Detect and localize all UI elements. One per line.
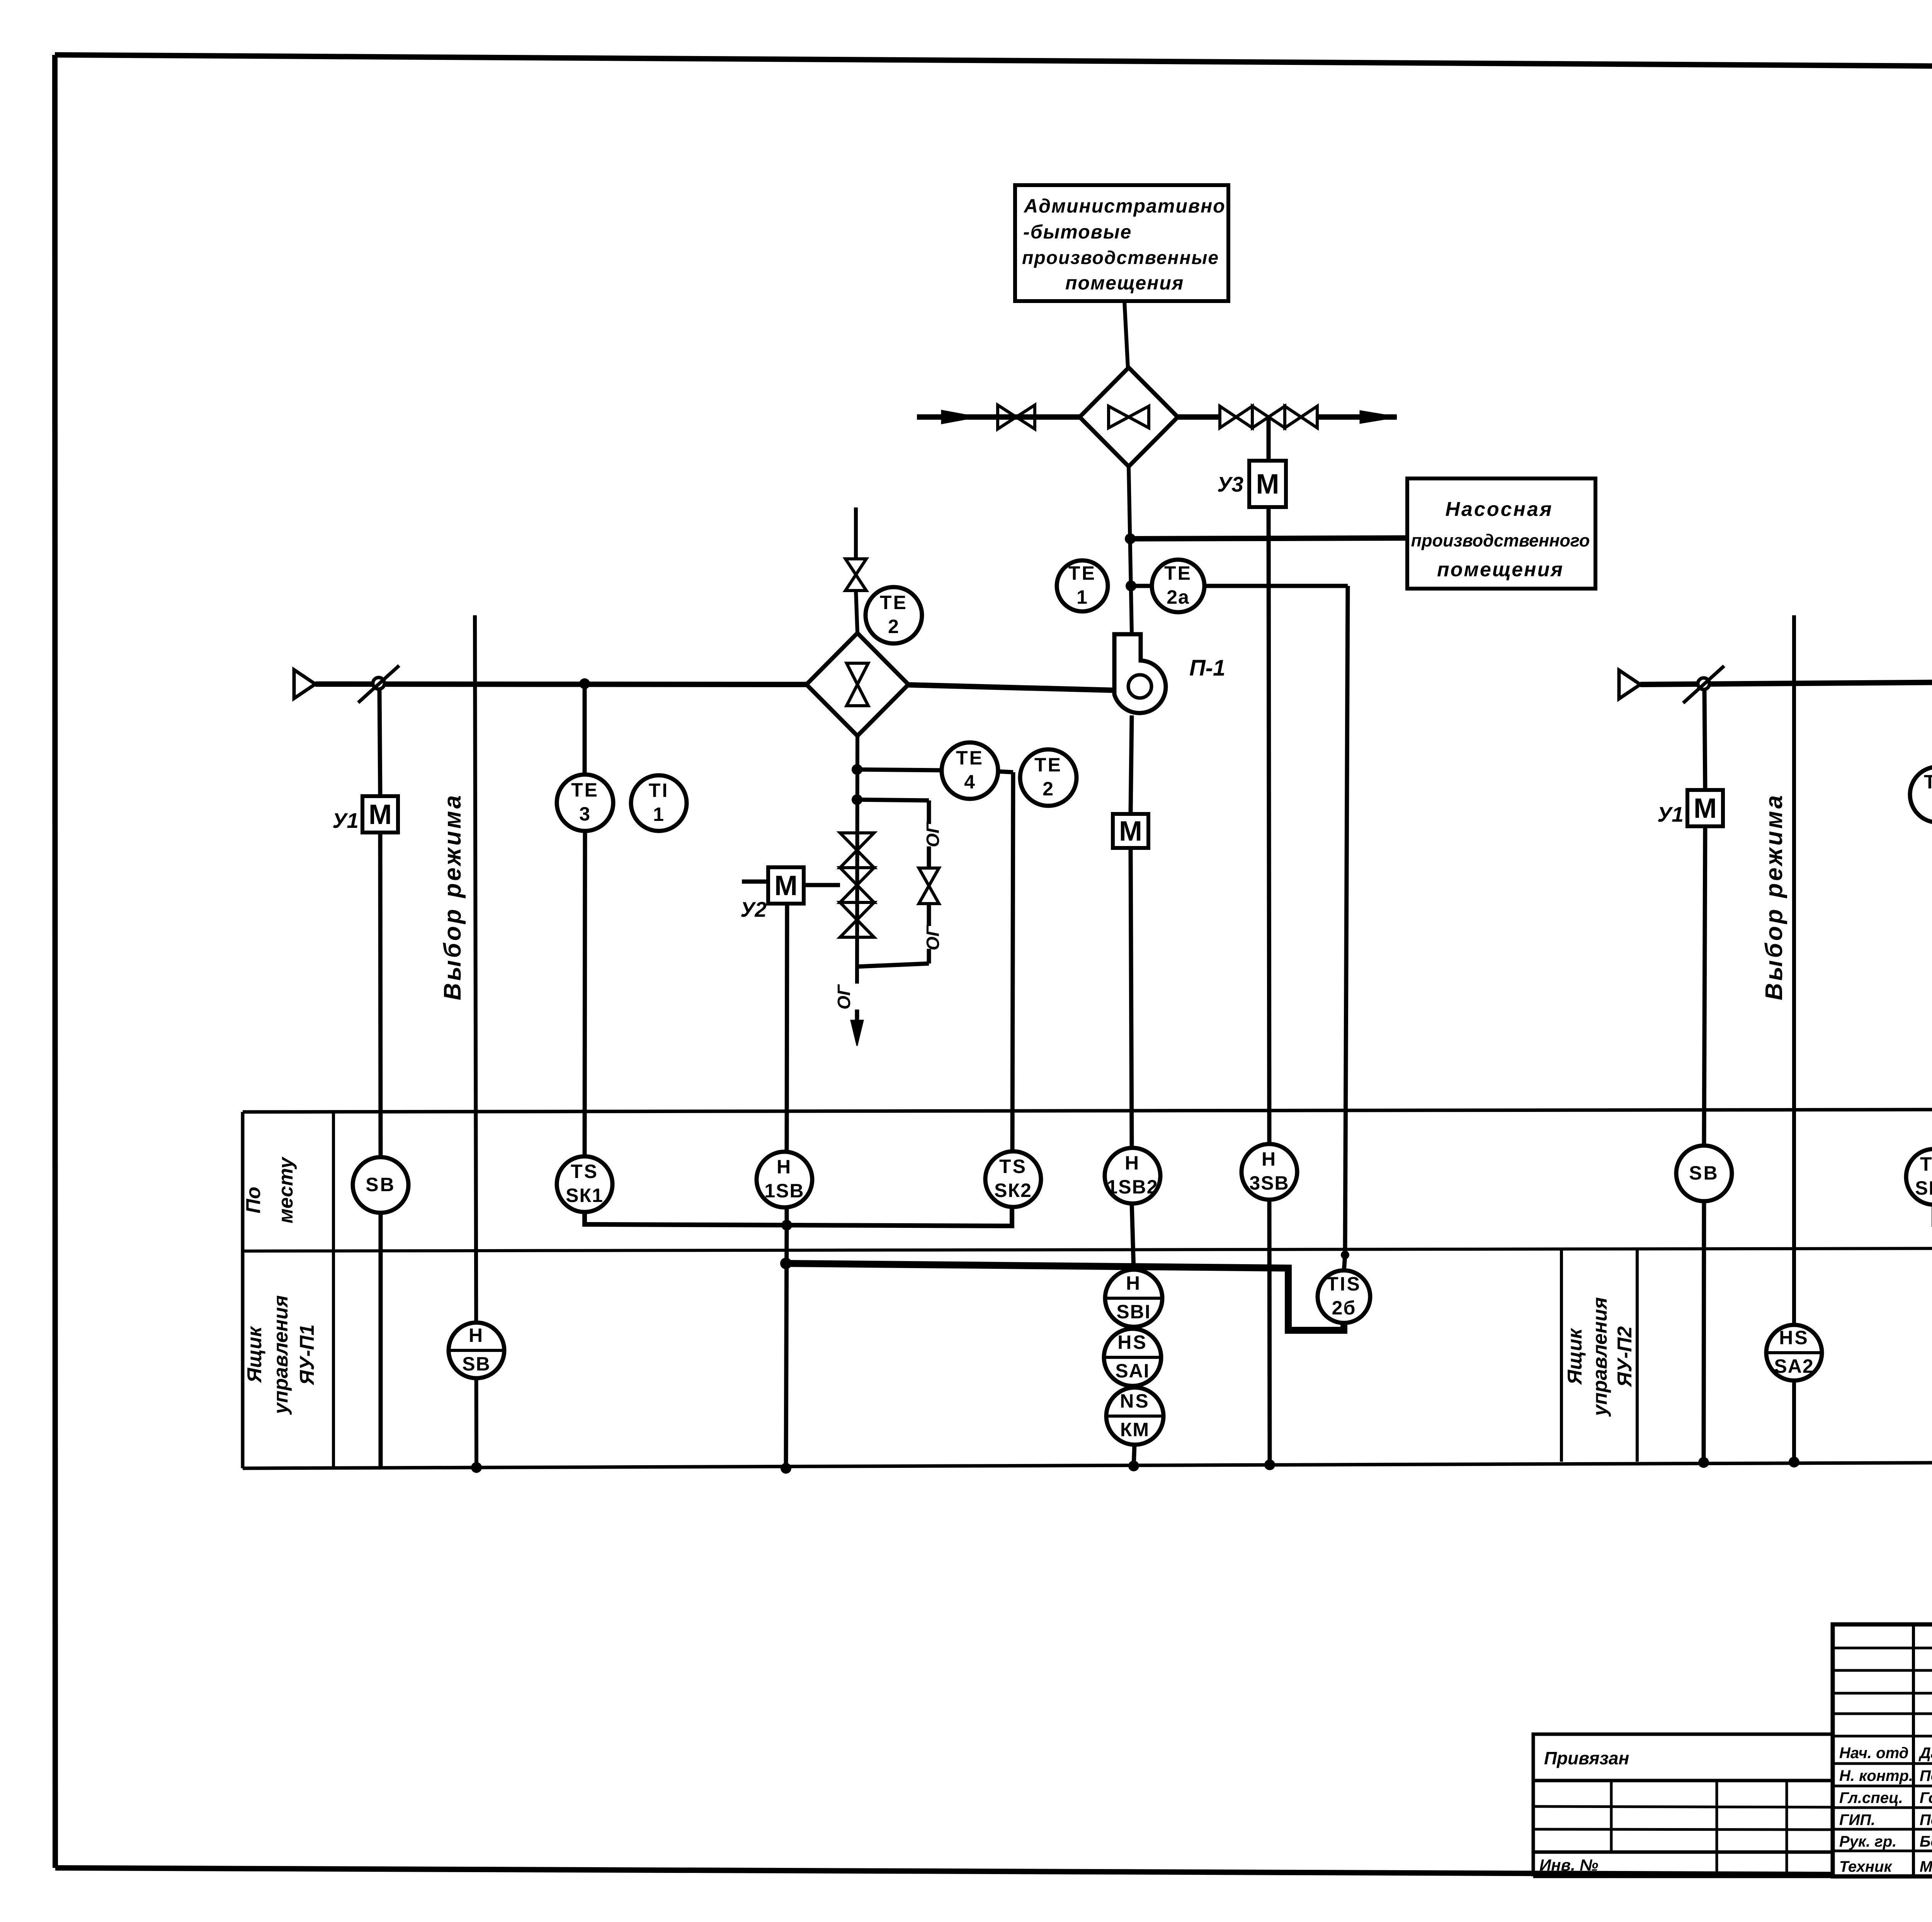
node bus junction H 1SB П-1 xyxy=(781,1220,792,1231)
svg-text:У1: У1 xyxy=(1657,802,1684,826)
wire TE3 П-1 down to TS SK1 xyxy=(585,831,585,1156)
svg-text:1: 1 xyxy=(1077,586,1088,608)
instrument NS/KM П-1 xyxy=(1106,1387,1163,1445)
wire top diamond outlet down to fan П-1 xyxy=(1129,466,1132,633)
wire ЯУ-П2 column right xyxy=(1636,1249,1639,1462)
wire actuator У1 П-2 down to SB xyxy=(1704,826,1705,1146)
svg-text:управления: управления xyxy=(270,1295,292,1415)
wire П-1 duct left of diamond xyxy=(315,684,806,684)
title block Привязан section xyxy=(1533,1734,1833,1876)
svg-text:ТЕ: ТЕ xyxy=(1068,562,1096,584)
svg-text:M: M xyxy=(369,799,392,830)
svg-text:ГИП.: ГИП. xyxy=(1839,1811,1875,1828)
wire bypass right leg П-1 xyxy=(927,846,931,868)
svg-text:Постникова: Постникова xyxy=(1920,1811,1932,1828)
node band bottom SB П-2 xyxy=(1698,1457,1709,1468)
wire band left edge xyxy=(241,1112,245,1468)
instrument TS SK2 П-1 xyxy=(985,1151,1041,1207)
title block signature table xyxy=(1833,1624,1932,1876)
node thick line junction on H 1SB П-1 xyxy=(780,1258,792,1269)
svg-text:Ящик: Ящик xyxy=(1564,1328,1586,1385)
svg-text:ОГ: ОГ xyxy=(923,822,943,847)
svg-text:помещения: помещения xyxy=(1065,272,1184,294)
node box Насосная производственного помещения xyxy=(1407,478,1595,589)
wire thick H 1SB П-1 to TIS 2б xyxy=(786,1263,1344,1330)
node band bottom NS KM П-1 xyxy=(1128,1461,1139,1471)
svg-text:SА2: SА2 xyxy=(1774,1355,1814,1377)
actuator M У3 xyxy=(1249,461,1286,507)
svg-text:1: 1 xyxy=(653,804,665,825)
inlet air triangle П-2 xyxy=(1619,670,1640,699)
node TE2a wire at band divider xyxy=(1341,1251,1349,1259)
svg-text:Ящик: Ящик xyxy=(243,1326,266,1383)
instrument TE2 П-1 top xyxy=(866,587,922,644)
svg-text:2: 2 xyxy=(1043,778,1054,800)
svg-text:SК1: SК1 xyxy=(1915,1177,1932,1199)
valve above П-1 heater diamond xyxy=(845,559,866,591)
fan П-1 xyxy=(1114,634,1166,713)
flow arrow on top pipe left xyxy=(942,410,977,424)
svg-text:производственного: производственного xyxy=(1411,531,1590,550)
instrument TI1 П-1 xyxy=(631,775,687,831)
svg-text:-бытовые: -бытовые xyxy=(1023,221,1132,243)
valve control stack 1 П-1 xyxy=(840,833,874,868)
wire ЯУ-П2 column left xyxy=(1560,1250,1563,1462)
svg-text:2а: 2а xyxy=(1167,586,1190,608)
svg-text:1SВ: 1SВ xyxy=(764,1180,804,1202)
wire damper П-1 to actuator У1 xyxy=(379,689,380,796)
svg-text:1SВ2: 1SВ2 xyxy=(1107,1176,1158,1198)
svg-text:У3: У3 xyxy=(1217,472,1243,496)
svg-text:SАI: SАI xyxy=(1115,1360,1150,1382)
svg-text:M: M xyxy=(774,870,798,901)
svg-text:ТЕ: ТЕ xyxy=(1034,754,1062,776)
wire page frame left border xyxy=(55,55,55,1868)
svg-text:Привязан: Привязан xyxy=(1544,1748,1629,1768)
svg-text:Боева: Боева xyxy=(1920,1833,1932,1850)
svg-text:помещения: помещения xyxy=(1437,558,1564,581)
svg-text:NS: NS xyxy=(1120,1390,1150,1412)
svg-text:Н: Н xyxy=(1125,1152,1140,1174)
instrument H/SB П-1 xyxy=(449,1323,504,1378)
instrument HS/SAI П-1 xyxy=(1104,1329,1161,1386)
wire bypass bottom П-1 xyxy=(857,964,929,967)
svg-text:Меновщикова: Меновщикова xyxy=(1920,1858,1932,1875)
wire П-2 duct left of diamond xyxy=(1640,681,1932,684)
svg-text:ТЕ: ТЕ xyxy=(1924,771,1932,793)
svg-text:Техник: Техник xyxy=(1839,1858,1892,1875)
svg-text:ТS: ТS xyxy=(1920,1153,1932,1175)
svg-text:Инв. №: Инв. № xyxy=(1539,1856,1598,1874)
svg-text:ТIS: ТIS xyxy=(1327,1273,1361,1295)
drain arrow П-1 xyxy=(851,1020,863,1046)
svg-text:ОГ: ОГ xyxy=(923,925,943,950)
instrument SB П-1 xyxy=(353,1157,408,1213)
actuator M У1 П-1 xyxy=(362,796,398,832)
wire top pipe right segment 2 xyxy=(1317,414,1397,420)
valve inside top diamond xyxy=(1109,406,1149,428)
svg-text:Постникова: Постникова xyxy=(1920,1767,1932,1784)
svg-text:Данилов: Данилов xyxy=(1918,1745,1932,1762)
svg-text:ТЕ: ТЕ xyxy=(571,779,599,801)
wire TE2a signal down to TIS 2б xyxy=(1345,586,1348,1255)
instrument TS SK1 П-2 xyxy=(1906,1149,1932,1205)
svg-text:3: 3 xyxy=(579,803,591,825)
wire above valve П-1 heater xyxy=(854,507,858,559)
instrument H/SBI П-1 xyxy=(1105,1270,1162,1327)
wire junction to pump room box xyxy=(1130,538,1407,539)
valve control stack 2 П-1 xyxy=(840,868,874,902)
wire damper П-2 to actuator У1 xyxy=(1704,689,1705,790)
wire bypass right leg upper П-1 xyxy=(927,800,931,824)
svg-text:По: По xyxy=(242,1187,265,1213)
damper with actuator П-2 xyxy=(1683,666,1724,703)
instrument H 1SB2 П-1 xyxy=(1105,1148,1160,1204)
instrument TE1 xyxy=(1057,560,1108,611)
svg-text:SВ: SВ xyxy=(1689,1162,1719,1184)
svg-text:ТЕ: ТЕ xyxy=(1164,562,1192,584)
wire mode-select line П-1 xyxy=(475,615,476,1468)
valve 1 right of top diamond xyxy=(1220,406,1252,428)
svg-text:SВ: SВ xyxy=(366,1174,395,1195)
node band bottom H 3SB xyxy=(1264,1459,1275,1470)
svg-text:Выбор режима: Выбор режима xyxy=(1761,793,1787,1001)
instrument TS SK1 П-1 xyxy=(557,1156,612,1212)
svg-text:2б: 2б xyxy=(1332,1297,1356,1319)
svg-text:Насосная: Насосная xyxy=(1445,498,1553,521)
wire H 1SB2 П-1 to lamp stack xyxy=(1132,1204,1134,1270)
svg-text:ТS: ТS xyxy=(571,1161,599,1182)
svg-text:У2: У2 xyxy=(740,897,767,921)
wire top pipe left segment xyxy=(917,414,1080,420)
valve 2 right of top diamond xyxy=(1252,406,1285,428)
svg-text:ТI: ТI xyxy=(649,780,669,801)
instrument SB П-2 xyxy=(1676,1146,1732,1201)
wire H 1SB П-1 to bus xyxy=(785,1207,789,1225)
svg-text:Выбор режима: Выбор режима xyxy=(439,793,466,1001)
svg-text:3SВ: 3SВ xyxy=(1249,1172,1289,1194)
actuator M У1 П-2 xyxy=(1687,790,1723,826)
instrument TE2а xyxy=(1152,560,1204,612)
instrument TE2 П-1 standalone xyxy=(1020,749,1077,806)
wire П-1 duct diamond to fan xyxy=(908,685,1114,690)
instrument H 1SB П-1 xyxy=(757,1152,812,1207)
svg-text:Н: Н xyxy=(1262,1148,1277,1170)
svg-text:M: M xyxy=(1119,816,1142,847)
wire TE4 П-1 drop down to TS SK2 xyxy=(1012,772,1013,1151)
wire mode-select line П-2 xyxy=(1792,615,1796,1461)
valve control stack 3 П-1 xyxy=(840,902,874,937)
svg-text:4: 4 xyxy=(964,771,976,793)
wire page frame top border xyxy=(55,55,1932,70)
node band bottom Выбор П-1 xyxy=(471,1462,482,1473)
node bypass junction top П-1 xyxy=(852,794,862,805)
wire duct junction to TE3 П-1 xyxy=(583,684,587,775)
node junction TE3 П-1 xyxy=(579,678,590,689)
heat exchanger (recuperator) top diamond xyxy=(1080,368,1178,466)
wire fan П-1 to motor xyxy=(1131,715,1132,814)
wire TE4 П-1 to drop xyxy=(998,771,1013,772)
svg-text:месту: месту xyxy=(275,1156,297,1224)
svg-text:П-1: П-1 xyxy=(1189,655,1225,681)
valve inside П-1 diamond xyxy=(847,663,868,706)
svg-text:Н: Н xyxy=(469,1324,484,1346)
instrument H 3SB П-1 xyxy=(1242,1144,1297,1200)
wire top pipe right segment 1 xyxy=(1178,414,1220,420)
flow arrow on top pipe right xyxy=(1360,411,1397,423)
node box Административно-бытовые производственные помещения xyxy=(1015,185,1228,301)
wire page frame bottom border xyxy=(55,1868,1932,1878)
svg-text:SК1: SК1 xyxy=(566,1185,604,1206)
wire local bus П-1 xyxy=(585,1207,1012,1226)
wire У2 П-1 down to H 1SB xyxy=(787,904,787,1152)
wire H 3SB down to band bottom xyxy=(1269,1200,1270,1465)
inlet air triangle П-1 xyxy=(294,670,315,698)
svg-text:Н. контр.: Н. контр. xyxy=(1839,1767,1913,1784)
svg-text:Гл.спец.: Гл.спец. xyxy=(1839,1789,1903,1806)
valve left of top diamond xyxy=(998,405,1035,429)
node junction TE2a xyxy=(1126,581,1136,591)
heat exchanger П-1 diamond xyxy=(806,633,908,736)
svg-text:ОГ: ОГ xyxy=(834,984,854,1010)
wire junction to TE4 П-1 xyxy=(857,769,942,770)
svg-text:Гольцман: Гольцман xyxy=(1920,1789,1932,1806)
wire band row divider xyxy=(243,1248,1932,1251)
wire П-1 heater line down xyxy=(857,736,857,984)
svg-text:2: 2 xyxy=(888,616,900,637)
valve 3 right of top diamond xyxy=(1285,406,1317,428)
svg-text:производственные: производственные xyxy=(1022,248,1219,268)
wire band bottom edge xyxy=(243,1461,1932,1468)
svg-text:ЯУ-П2: ЯУ-П2 xyxy=(1614,1326,1636,1388)
wire H 1SB П-1 down to band bottom xyxy=(786,1225,787,1468)
instrument TE3 П-2 xyxy=(1910,767,1932,822)
instrument TE4 П-1 xyxy=(942,742,998,799)
actuator M fan П-1 xyxy=(1113,814,1148,848)
instrument HS/SA2 П-2 xyxy=(1766,1325,1822,1381)
wire junction through TE2a xyxy=(1131,584,1348,588)
svg-text:ТЕ: ТЕ xyxy=(880,592,908,613)
node band bottom HS SA2 П-2 xyxy=(1789,1457,1799,1467)
svg-text:НS: НS xyxy=(1117,1331,1147,1353)
node band bottom H 1SB П-1 xyxy=(781,1463,791,1474)
wire bypass right leg П-1 xyxy=(927,904,931,926)
svg-text:КМ: КМ xyxy=(1120,1419,1150,1440)
wire У2 П-1 to valve stack xyxy=(804,883,840,887)
wire from admin box to heat exchanger У3 xyxy=(1124,301,1128,368)
svg-text:SВI: SВI xyxy=(1116,1301,1151,1323)
svg-text:Н: Н xyxy=(777,1156,792,1178)
wire actuator У3 down to H/3SB xyxy=(1269,507,1269,1144)
wire band top edge xyxy=(243,1109,1932,1112)
node junction TE3 П-2 xyxy=(1932,677,1932,688)
svg-text:SК2: SК2 xyxy=(994,1180,1032,1201)
svg-text:управления: управления xyxy=(1589,1297,1611,1417)
valve bypass П-1 xyxy=(919,868,939,904)
svg-text:ТS: ТS xyxy=(999,1156,1027,1177)
svg-text:Нач. отд: Нач. отд xyxy=(1839,1745,1908,1762)
svg-text:SВ: SВ xyxy=(462,1353,490,1375)
svg-text:У1: У1 xyxy=(332,809,359,832)
svg-text:НS: НS xyxy=(1779,1327,1809,1348)
node junction TE4 П-1 xyxy=(852,764,862,775)
damper with actuator П-1 xyxy=(358,666,399,703)
actuator M У2 П-1 xyxy=(768,867,804,904)
wire SB П-2 down to band bottom xyxy=(1704,1201,1704,1462)
svg-text:M: M xyxy=(1256,469,1279,500)
svg-text:M: M xyxy=(1694,793,1717,824)
svg-text:Административно: Административно xyxy=(1023,195,1226,217)
instrument TIS 2б xyxy=(1318,1270,1370,1323)
wire actuator У1 П-1 down to SB xyxy=(380,832,381,1157)
wire valve to П-1 diamond top xyxy=(856,591,857,633)
svg-text:Рук. гр.: Рук. гр. xyxy=(1839,1833,1896,1850)
wire lamp stack П-1 to band bottom xyxy=(1134,1445,1134,1466)
svg-text:ЯУ-П1: ЯУ-П1 xyxy=(296,1324,318,1386)
wire bypass right leg lower П-1 xyxy=(927,949,931,964)
wire drain П-1 xyxy=(855,1010,859,1020)
wire SB П-1 down to band bottom xyxy=(379,1213,383,1468)
instrument TE3 П-1 xyxy=(557,775,613,831)
wire motor П-1 down to H 1SB2 xyxy=(1131,848,1132,1148)
wire valve 2 to actuator У3 xyxy=(1267,417,1271,461)
wire stub left of У2 П-1 xyxy=(742,880,768,884)
node junction to pump room box xyxy=(1125,533,1136,544)
wire bypass top П-1 xyxy=(857,800,929,800)
wire stub into TIS 2б top xyxy=(1344,1255,1345,1272)
svg-text:ТЕ: ТЕ xyxy=(956,747,984,769)
svg-text:Н: Н xyxy=(1126,1272,1141,1294)
wire band label column divider xyxy=(332,1112,335,1468)
